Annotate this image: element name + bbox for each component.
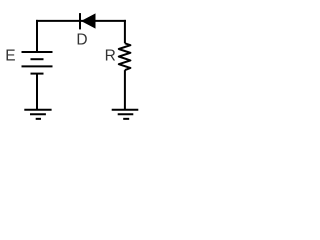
svg-text:R: R xyxy=(105,48,116,65)
svg-text:E: E xyxy=(5,48,15,65)
svg-text:D: D xyxy=(76,32,87,49)
